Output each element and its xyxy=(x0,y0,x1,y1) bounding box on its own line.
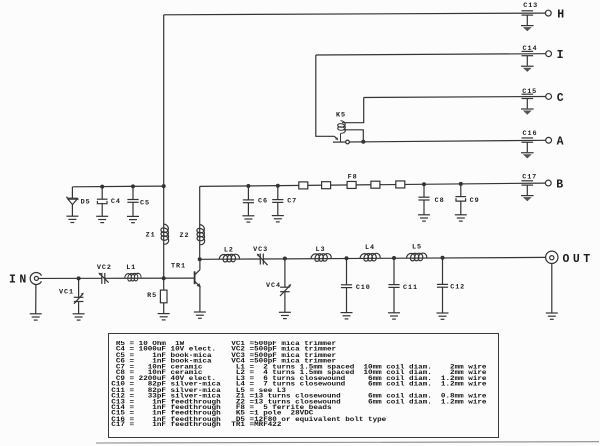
svg-text:C8: C8 xyxy=(435,197,445,205)
node junction C4 xyxy=(100,185,104,189)
svg-text:VC1: VC1 xyxy=(59,288,74,296)
inductor L2 xyxy=(219,254,239,262)
capacitor VC2 variable series xyxy=(98,273,108,284)
terminal C xyxy=(546,94,552,100)
svg-text:L5: L5 xyxy=(412,244,422,252)
capacitor C5 xyxy=(132,186,134,199)
ground D5 xyxy=(66,216,78,222)
svg-text:D5: D5 xyxy=(81,199,91,207)
ground C8 xyxy=(418,215,430,221)
svg-text:IN: IN xyxy=(9,273,30,286)
capacitor C10 xyxy=(346,258,348,285)
node junction C12 xyxy=(441,256,445,260)
ground R5 xyxy=(158,314,170,320)
svg-text:C17: C17 xyxy=(522,174,537,182)
ground IN xyxy=(30,314,42,320)
coax connector IN xyxy=(30,273,41,285)
capacitor C16 feedthrough xyxy=(521,138,534,159)
wire VC1 to ground xyxy=(78,302,80,314)
svg-text:C15: C15 xyxy=(522,88,537,96)
capacitor C13 feedthrough xyxy=(521,11,534,32)
relay K5 coil xyxy=(338,121,346,134)
wire base row right of VC2 xyxy=(105,277,195,279)
svg-text:C16: C16 xyxy=(523,130,538,138)
svg-text:C14: C14 xyxy=(523,45,538,53)
svg-text:C5: C5 xyxy=(140,199,150,207)
terminal I xyxy=(546,51,552,57)
inductor L3 xyxy=(311,254,331,262)
svg-text:B: B xyxy=(556,178,566,191)
capacitor C11 xyxy=(393,258,395,285)
svg-text:C13: C13 xyxy=(523,2,538,10)
node junction C8 xyxy=(422,182,426,186)
svg-text:K5: K5 xyxy=(336,112,346,120)
wire relay coil bottom to A row xyxy=(343,130,363,142)
inductor L4 xyxy=(360,253,380,261)
coax connector OUT xyxy=(546,251,558,263)
wire H rail xyxy=(164,13,546,15)
relay K5 contact xyxy=(346,140,350,144)
transistor TR1 xyxy=(195,259,201,287)
wire IN connector to ground xyxy=(35,284,37,313)
inductor L1 xyxy=(125,273,141,281)
capacitor C7 xyxy=(277,186,279,200)
wire A row xyxy=(333,140,546,142)
relay K5 switch arm arrow xyxy=(334,136,338,140)
relay K5 armature link xyxy=(340,133,342,142)
inductor Z1 xyxy=(161,224,169,244)
resistor R5 xyxy=(160,278,167,313)
capacitor C17 feedthrough xyxy=(521,181,534,201)
terminal B xyxy=(545,180,551,186)
svg-text:VC3: VC3 xyxy=(253,246,268,254)
node junction left rail / main vertical xyxy=(162,184,166,188)
svg-text:L4: L4 xyxy=(365,244,375,252)
ground C9 xyxy=(455,215,467,221)
ground C7 xyxy=(272,216,284,222)
ferrite beads F8 xyxy=(299,181,405,189)
wire C row xyxy=(364,97,546,98)
capacitor VC3 variable series xyxy=(257,254,268,266)
svg-text:L2: L2 xyxy=(224,247,234,255)
node junction C9 xyxy=(459,182,463,186)
wire OUT connector to ground xyxy=(551,264,553,314)
node junction C6 xyxy=(246,184,250,188)
node junction collector xyxy=(198,257,202,261)
wire VC1 stem xyxy=(78,278,80,297)
svg-text:H: H xyxy=(557,8,567,21)
wire main vertical xyxy=(163,15,165,278)
svg-text:A: A xyxy=(557,136,567,149)
wire Z2 branch xyxy=(199,186,201,259)
capacitor C9 electrolytic xyxy=(460,184,462,197)
svg-text:L3: L3 xyxy=(316,246,326,254)
wire VC4 stem xyxy=(284,259,286,288)
wire collector row xyxy=(200,258,261,260)
wire TR1 emitter to ground xyxy=(199,286,201,312)
svg-text:C11: C11 xyxy=(403,284,418,292)
capacitor VC4 variable xyxy=(280,284,291,296)
wire I row xyxy=(316,54,546,55)
ground C4 xyxy=(96,216,108,222)
svg-text:Z1: Z1 xyxy=(146,232,156,240)
node junction VC4 xyxy=(283,257,287,261)
wire VC4 to ground xyxy=(284,292,286,313)
node junction C7 xyxy=(276,184,280,188)
ground TR1 emitter xyxy=(194,312,206,318)
svg-text:I: I xyxy=(557,49,567,62)
capacitor C4 electrolytic xyxy=(101,187,103,200)
capacitor C8 xyxy=(423,184,425,197)
terminal H xyxy=(545,10,551,16)
node junction base/R5 xyxy=(162,276,166,280)
ground C6 xyxy=(242,216,254,222)
parts list box xyxy=(108,333,500,438)
svg-text:C7: C7 xyxy=(287,197,297,205)
wire relay coil top to C row xyxy=(342,98,364,123)
ground OUT xyxy=(546,313,558,319)
node junction C5 xyxy=(131,184,135,188)
svg-text:VC2: VC2 xyxy=(97,264,112,272)
terminal A xyxy=(546,137,552,143)
node junction C10 xyxy=(345,256,349,260)
svg-text:Z2: Z2 xyxy=(180,232,190,240)
inductor Z2 xyxy=(197,225,205,245)
svg-text:C9: C9 xyxy=(470,197,480,205)
svg-text:C12: C12 xyxy=(450,284,465,292)
wire B rail xyxy=(200,183,546,186)
svg-text:L1: L1 xyxy=(126,264,136,272)
svg-text:R5: R5 xyxy=(147,292,157,300)
ground C5 xyxy=(127,216,139,222)
ground C10 xyxy=(341,313,353,319)
capacitor C14 feedthrough xyxy=(521,51,534,71)
svg-text:TR1: TR1 xyxy=(171,263,186,271)
node junction C11 xyxy=(392,256,396,260)
svg-text:C10: C10 xyxy=(356,284,371,292)
ground VC4 xyxy=(279,312,291,318)
inductor L5 xyxy=(407,253,427,261)
capacitor C12 xyxy=(442,258,444,285)
svg-text:C6: C6 xyxy=(258,198,268,206)
wire left rail xyxy=(72,185,163,188)
node junction base/VC1 xyxy=(77,276,81,280)
wire base row xyxy=(38,277,102,279)
svg-text:OUT: OUT xyxy=(563,253,594,266)
svg-text:F8: F8 xyxy=(348,174,358,182)
svg-text:C4: C4 xyxy=(111,198,121,206)
svg-text:VC4: VC4 xyxy=(266,282,281,290)
wire collector row right of VC3 xyxy=(263,257,545,259)
wire I drop to relay xyxy=(316,55,335,136)
capacitor C15 feedthrough xyxy=(521,94,534,115)
capacitor C6 xyxy=(247,186,249,200)
ground C11 xyxy=(388,313,400,319)
svg-text:C: C xyxy=(557,92,567,105)
capacitor VC1 variable xyxy=(74,293,84,304)
ground C12 xyxy=(437,313,449,319)
diode D5 xyxy=(66,187,78,216)
ground VC1 xyxy=(73,314,85,320)
node junction A row xyxy=(361,140,365,144)
